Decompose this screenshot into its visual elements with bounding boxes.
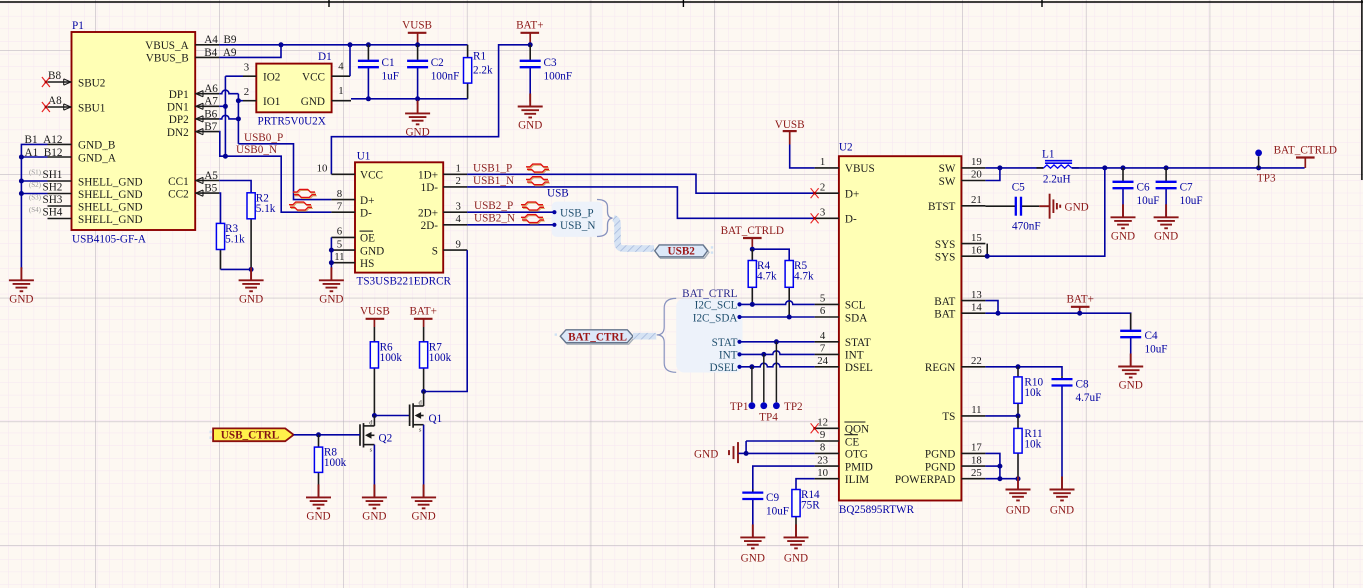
svg-text:DN2: DN2 <box>167 127 189 139</box>
svg-text:ILIM: ILIM <box>845 474 869 486</box>
capacitor C3 <box>520 45 572 102</box>
svg-text:6: 6 <box>337 226 343 238</box>
junction BAT join <box>996 311 1001 316</box>
pin SH3 (SHELL_GND) of P1 <box>48 201 143 213</box>
svg-text:22: 22 <box>971 355 982 367</box>
svg-text:B5: B5 <box>204 183 217 195</box>
svg-text:GND_A: GND_A <box>78 152 116 164</box>
pin 21 (BTST) of U2 <box>928 194 985 213</box>
svg-text:BAT: BAT <box>934 309 955 321</box>
ground GND under C6 <box>1122 204 1124 217</box>
pin A5 (CC1) of P1 <box>168 170 219 188</box>
svg-text:BAT_CTRL: BAT_CTRL <box>682 288 737 300</box>
pin 7 (INT) of U2 <box>815 343 864 362</box>
svg-text:8: 8 <box>820 442 825 454</box>
pin B8 (SBU2) of P1 <box>48 77 106 89</box>
svg-text:SYS: SYS <box>935 252 956 264</box>
pin label SH1 <box>29 168 62 180</box>
svg-text:10uF: 10uF <box>766 506 789 518</box>
svg-text:GND: GND <box>9 293 33 305</box>
svg-text:100k: 100k <box>324 457 347 469</box>
svg-text:TS3USB221EDRCR: TS3USB221EDRCR <box>357 276 452 288</box>
wire BAT+ to U1 VCC <box>331 45 530 175</box>
svg-text:10k: 10k <box>1024 387 1041 399</box>
svg-text:GND: GND <box>301 96 325 108</box>
wire P1 ground rail <box>21 144 47 269</box>
svg-text:2.2k: 2.2k <box>473 65 493 77</box>
no-ERC X on U2 D- <box>811 213 819 223</box>
svg-text:SCL: SCL <box>845 300 866 312</box>
pin 2 (1D-) of U1 <box>421 175 468 194</box>
svg-text:(S4): (S4) <box>29 206 42 214</box>
wire VUSB rail <box>281 44 468 46</box>
sheet border <box>0 0 1363 180</box>
wire DP2 to vertical <box>219 115 238 119</box>
wire D1 IO1 to vertical <box>238 100 243 102</box>
power port VUSB mid <box>360 306 390 327</box>
pin B6 (DP2) of P1 <box>169 108 219 126</box>
svg-text:USB2_N: USB2_N <box>474 213 515 225</box>
svg-text:3: 3 <box>820 207 825 219</box>
ground GND under rail <box>405 99 430 139</box>
svg-text:8: 8 <box>337 188 342 200</box>
pin SH1 (SHELL_GND) of P1 <box>48 176 143 188</box>
junction gnd rail at C1 <box>366 96 371 101</box>
svg-text:18: 18 <box>971 454 982 466</box>
junction at R8 top <box>316 432 321 437</box>
no-ERC X on U2 QON <box>811 423 819 433</box>
ground GND under C4 <box>1130 354 1132 367</box>
svg-text:VCC: VCC <box>360 170 383 182</box>
resistor R8 <box>314 435 346 498</box>
svg-text:14: 14 <box>971 301 982 313</box>
resistor R10 <box>1014 367 1044 416</box>
wire U1 S to Q1 drain <box>424 250 468 391</box>
ground GND under Q1 <box>423 484 425 497</box>
svg-text:SBU1: SBU1 <box>78 102 105 114</box>
pin 13 (BAT) of U2 <box>934 289 985 308</box>
svg-text:GND: GND <box>1154 230 1178 242</box>
wire I2C_SDA to U2 SDA <box>740 316 815 318</box>
ground GND under C7 <box>1165 204 1167 217</box>
svg-text:4: 4 <box>338 61 344 73</box>
svg-text:100nF: 100nF <box>544 71 573 83</box>
junction U1 HS pin <box>329 260 334 265</box>
junction DSEL TP1 <box>749 364 754 369</box>
wire U1 OE GND HS to ground <box>330 237 332 269</box>
pin 25 (POWERPAD) of U2 <box>895 467 986 486</box>
junction CE OTG gnd <box>744 451 749 456</box>
svg-text:21: 21 <box>971 194 982 206</box>
junction PGND25 <box>997 476 1002 481</box>
svg-text:PGND: PGND <box>925 449 955 461</box>
junction USB0_P at DP2 <box>236 116 241 121</box>
harness connector USB2 <box>655 245 714 258</box>
svg-text:B6: B6 <box>204 108 217 120</box>
svg-text:USB1_P: USB1_P <box>473 163 512 175</box>
svg-text:L1: L1 <box>1042 148 1054 160</box>
svg-text:3: 3 <box>455 200 460 212</box>
junction R6 Q2 drain gate node <box>372 413 377 418</box>
svg-text:TS: TS <box>942 411 955 423</box>
pin 10 (VCC) of U1 <box>317 163 383 182</box>
junction STAT TP2 <box>774 339 779 344</box>
svg-text:GND: GND <box>411 510 435 522</box>
wire CC1 to R2 <box>219 181 251 193</box>
test point TP4 <box>759 354 778 423</box>
wire net USB0_N to U1 D- <box>225 156 331 212</box>
mux U1 TS3USB221EDRCR body <box>355 151 452 288</box>
junction BAT+ right <box>1077 311 1082 316</box>
port USB_CTRL <box>210 428 294 441</box>
power port BAT+ right <box>1066 294 1093 314</box>
wire INT to U2 <box>740 351 815 355</box>
wire SYS15 to SYS16 <box>986 244 988 257</box>
svg-text:TP2: TP2 <box>784 401 803 413</box>
svg-text:SH1: SH1 <box>43 169 63 181</box>
wire net USB0_N vertical <box>225 76 243 156</box>
pin 22 (REGN) of U2 <box>925 355 985 374</box>
no-ERC X on U2 D+ <box>811 188 819 198</box>
svg-text:C4: C4 <box>1145 330 1158 342</box>
wire I2C_SCL to U2 SCL <box>740 301 815 305</box>
svg-text:2: 2 <box>244 86 249 98</box>
resistor R4 <box>748 249 777 304</box>
svg-text:GND: GND <box>1111 230 1135 242</box>
harness entry I2C_SDA <box>693 312 742 324</box>
svg-text:4: 4 <box>455 213 461 225</box>
charger U2 BQ25895RTWR body <box>839 142 962 517</box>
svg-text:SBU2: SBU2 <box>78 77 105 89</box>
junction VUSB rail at D1 VCC <box>348 42 353 47</box>
harness brace USB <box>597 200 613 237</box>
svg-text:SHELL_GND: SHELL_GND <box>78 214 143 226</box>
svg-text:VCC: VCC <box>302 72 325 84</box>
pin 3 (IO2) of D1 <box>243 62 280 84</box>
svg-text:A7: A7 <box>204 96 218 108</box>
wire VUSB to U2 VBUS <box>790 145 815 168</box>
pin 12 (QON) of U2 <box>815 417 870 436</box>
svg-text:QON: QON <box>845 424 869 436</box>
junction USB0_N bottom <box>223 154 228 159</box>
svg-text:2D-: 2D- <box>421 220 439 232</box>
svg-text:4.7k: 4.7k <box>794 271 814 283</box>
svg-text:DSEL: DSEL <box>845 362 873 374</box>
wire net USB0_P vertical <box>219 90 238 144</box>
power port BAT+ top <box>516 20 543 45</box>
wire REGN to C8 <box>985 367 1062 376</box>
pin 1 (GND) of D1 <box>301 85 351 108</box>
svg-text:GND: GND <box>319 293 343 305</box>
pin 20 (SW) of U2 <box>939 169 986 188</box>
svg-text:GND: GND <box>1065 201 1089 213</box>
pin 2 (D+) of U2 <box>815 181 860 200</box>
junction R11 gnd <box>1016 476 1021 481</box>
svg-text:U1: U1 <box>357 151 371 163</box>
diff pair mark on U1 D+ <box>294 191 316 194</box>
svg-text:GND: GND <box>1006 505 1030 517</box>
svg-text:INT: INT <box>719 350 738 362</box>
svg-text:D+: D+ <box>360 195 374 207</box>
junction dots on P1 ground rail <box>19 155 24 197</box>
wire ILIM to R14 <box>796 479 815 490</box>
ground GND under U1 <box>319 267 344 305</box>
wire D1 VCC up to rail <box>349 45 351 76</box>
pin A8 (SBU1) of P1 <box>48 102 106 114</box>
svg-text:PMID: PMID <box>845 461 873 473</box>
svg-text:SH2: SH2 <box>43 181 63 193</box>
svg-text:SH4: SH4 <box>43 206 63 218</box>
svg-text:IO2: IO2 <box>263 72 280 84</box>
svg-text:GND: GND <box>306 510 330 522</box>
svg-text:1uF: 1uF <box>382 71 399 83</box>
pin 23 (PMID) of U2 <box>815 454 873 473</box>
diode array D1 PRTR5V0U2X body <box>256 51 331 128</box>
svg-text:1: 1 <box>338 85 343 97</box>
junction rail C7 <box>1164 165 1169 170</box>
pin 5 (SCL) of U2 <box>815 293 866 312</box>
svg-text:VBUS_B: VBUS_B <box>146 53 189 65</box>
svg-text:SHELL_GND: SHELL_GND <box>78 176 143 188</box>
svg-text:10: 10 <box>317 163 328 175</box>
svg-text:C6: C6 <box>1137 182 1150 194</box>
wire USB_N stub <box>467 224 554 226</box>
pin 4 (VCC) of D1 <box>302 61 350 84</box>
junction at B4_A9 join <box>279 42 284 47</box>
power port VUSB at U2 <box>775 119 805 145</box>
resistor R7 <box>420 327 452 392</box>
harness connector BAT_CTRL <box>555 330 635 344</box>
resistor R14 <box>792 489 820 537</box>
pin 6 (OE) of U1 <box>331 226 375 245</box>
pin 9 (CE) of U2 <box>815 429 860 448</box>
svg-text:USB0_N: USB0_N <box>236 144 277 156</box>
diff pair mark on U1 D- <box>290 203 312 206</box>
svg-text:20: 20 <box>971 169 982 181</box>
svg-text:4: 4 <box>820 330 826 342</box>
ground GND under C3 <box>518 94 543 132</box>
svg-text:100k: 100k <box>380 352 403 364</box>
wire PMID to C9 <box>753 466 815 489</box>
wire BAT14 to C4 <box>985 313 1130 330</box>
svg-text:STAT: STAT <box>712 337 738 349</box>
pin 14 (BAT) of U2 <box>934 301 985 320</box>
pin A7 (DN1) of P1 <box>167 96 219 114</box>
test point TP1 <box>730 367 755 413</box>
junction SDA R5 <box>787 315 792 320</box>
capacitor C6 <box>1113 168 1160 217</box>
capacitor C1 <box>358 45 399 99</box>
svg-text:(S2): (S2) <box>29 181 42 189</box>
junction INT TP4 <box>761 352 766 357</box>
wire VBUS_A to VUSB rail <box>219 44 281 46</box>
junction VUSB rail at C1 <box>366 42 371 47</box>
diff pair mark USB2_N <box>522 216 544 219</box>
svg-text:1: 1 <box>820 156 825 168</box>
resistor R5 <box>785 260 814 317</box>
junction SCL R4 <box>750 302 755 307</box>
svg-text:C9: C9 <box>766 492 779 504</box>
svg-text:VUSB: VUSB <box>775 119 805 131</box>
svg-text:A6: A6 <box>204 83 218 95</box>
pin B7 (DN2) of P1 <box>167 121 219 139</box>
ground GND under R8 <box>318 484 320 497</box>
wire DN1 to vertical <box>219 105 225 107</box>
capacitor C7 <box>1156 168 1203 217</box>
junction PGND18 <box>997 464 1002 469</box>
pin 2 (IO1) of D1 <box>243 86 280 108</box>
svg-text:VUSB: VUSB <box>402 20 432 32</box>
harness band to USB2 <box>614 218 655 249</box>
svg-text:CE: CE <box>845 436 859 448</box>
svg-text:C3: C3 <box>544 57 557 69</box>
wire PGND down <box>985 453 1018 478</box>
svg-text:10: 10 <box>817 467 828 479</box>
svg-text:C7: C7 <box>1180 182 1193 194</box>
svg-text:C2: C2 <box>431 57 444 69</box>
ground GND under Q2 <box>373 484 375 497</box>
wire BAT13 down <box>985 301 998 314</box>
svg-text:11: 11 <box>971 404 981 416</box>
harness entry I2C_SCL <box>695 300 742 312</box>
svg-text:16: 16 <box>971 244 982 256</box>
svg-text:USB_N: USB_N <box>560 220 595 232</box>
wire STAT to U2 <box>740 341 815 343</box>
harness entry USB_P <box>552 208 593 220</box>
svg-text:DP2: DP2 <box>169 114 189 126</box>
svg-text:U2: U2 <box>839 142 853 154</box>
svg-text:7: 7 <box>337 200 343 212</box>
pin 1 (1D+) of U1 <box>418 163 467 182</box>
svg-text:A5: A5 <box>204 170 218 182</box>
svg-text:C1: C1 <box>382 57 395 69</box>
svg-text:PRTR5V0U2X: PRTR5V0U2X <box>258 116 326 128</box>
test point TP3 <box>1255 150 1276 185</box>
pin 11 (HS) of U1 <box>331 251 374 270</box>
svg-text:I2C_SCL: I2C_SCL <box>695 300 738 312</box>
svg-text:BTST: BTST <box>928 201 956 213</box>
svg-text:19: 19 <box>971 156 982 168</box>
pin label SH4 <box>29 206 63 218</box>
pin 4 (STAT) of U2 <box>815 330 871 349</box>
power port BAT_CTRLD left <box>721 225 784 249</box>
svg-text:9: 9 <box>455 238 460 250</box>
svg-text:B8: B8 <box>48 70 61 82</box>
svg-text:75R: 75R <box>801 500 820 512</box>
wire CC2 to R3 <box>219 193 220 223</box>
svg-text:GND: GND <box>694 448 718 460</box>
svg-text:D-: D- <box>845 214 857 226</box>
junction rail SYS <box>1102 165 1107 170</box>
pin 4 (2D-) of U1 <box>421 213 468 232</box>
pin 11 (TS) of U2 <box>942 404 985 423</box>
svg-text:D1: D1 <box>318 51 332 63</box>
pin 3 (2D+) of U1 <box>418 200 467 219</box>
svg-text:USB2_P: USB2_P <box>474 200 513 212</box>
pin A4_B9 (VBUS_A) of P1 <box>145 34 237 52</box>
svg-text:SDA: SDA <box>845 312 867 324</box>
pin 8 (OTG) of U2 <box>815 442 868 461</box>
svg-text:GND: GND <box>518 120 542 132</box>
capacitor C5 BTST <box>985 182 1049 233</box>
wire SW rail to L1 <box>985 167 1043 169</box>
svg-text:5.1k: 5.1k <box>225 233 245 245</box>
test point TP2 <box>773 342 803 413</box>
svg-text:D+: D+ <box>845 189 859 201</box>
resistor R11 <box>1014 416 1043 479</box>
svg-text:USB0_P: USB0_P <box>244 132 283 144</box>
svg-text:DP1: DP1 <box>169 89 189 101</box>
pin B4_A9 (VBUS_B) of P1 <box>146 47 237 65</box>
svg-text:5: 5 <box>337 238 342 250</box>
svg-text:GND: GND <box>1119 380 1143 392</box>
svg-text:SHELL_GND: SHELL_GND <box>78 201 143 213</box>
svg-text:4.7uF: 4.7uF <box>1076 392 1102 404</box>
svg-text:USB_CTRL: USB_CTRL <box>221 429 279 441</box>
capacitor C8 <box>1052 376 1102 489</box>
svg-text:BAT+: BAT+ <box>516 20 543 32</box>
svg-text:R1: R1 <box>473 51 486 63</box>
svg-text:9: 9 <box>820 429 825 441</box>
svg-text:10uF: 10uF <box>1137 195 1160 207</box>
pin B5 (CC2) of P1 <box>168 183 219 201</box>
junction BAT_CTRLD node <box>750 247 755 252</box>
pin 17 (PGND) of U2 <box>925 442 985 461</box>
junction SW <box>997 165 1002 170</box>
svg-text:USB_P: USB_P <box>560 208 594 220</box>
wire USB_P stub <box>467 211 554 213</box>
svg-text:GND: GND <box>1050 505 1074 517</box>
pin 1 (VBUS) of U2 <box>815 156 875 175</box>
svg-text:25: 25 <box>971 467 982 479</box>
svg-text:10uF: 10uF <box>1180 195 1203 207</box>
svg-text:4.7k: 4.7k <box>757 271 777 283</box>
junction BAT+ C3 <box>528 42 533 47</box>
pin A6 (DP1) of P1 <box>169 83 219 101</box>
pin 16 (SYS) of U2 <box>935 244 986 263</box>
pin label SH3 <box>29 193 63 205</box>
power port VUSB top <box>402 20 432 45</box>
diff pair mark USB1_P <box>527 165 549 168</box>
wire ground rail <box>351 98 468 100</box>
junction USB0_P at IO1 <box>236 98 241 103</box>
svg-text:GND: GND <box>784 552 808 564</box>
svg-text:100nF: 100nF <box>431 71 460 83</box>
resistor R1 <box>464 45 493 99</box>
svg-text:CC2: CC2 <box>168 188 189 200</box>
capacitor C9 <box>742 490 789 538</box>
svg-text:SH3: SH3 <box>43 194 63 206</box>
harness brace BAT_CTRL <box>657 298 677 372</box>
svg-text:VBUS: VBUS <box>845 163 875 175</box>
wire USB1_N to U2 D- <box>467 187 814 218</box>
pin 24 (DSEL) of U2 <box>815 355 873 374</box>
junction SYS16 <box>985 254 990 259</box>
svg-text:USB: USB <box>547 188 569 200</box>
pin 3 (D-) of U2 <box>815 207 857 226</box>
svg-text:IO1: IO1 <box>263 96 280 108</box>
svg-text:B7: B7 <box>204 121 217 133</box>
resistor R3 <box>216 223 245 270</box>
svg-text:(S1): (S1) <box>29 168 42 176</box>
svg-text:REGN: REGN <box>925 362 955 374</box>
ground GND under P1 <box>9 267 34 305</box>
wire L1 to BAT_CTRLD <box>1072 167 1305 169</box>
wire net USB0_P to U1 D+ <box>238 144 331 200</box>
wire SYS to SW rail <box>987 168 1105 256</box>
svg-text:TP3: TP3 <box>1257 172 1276 184</box>
harness entry STAT <box>712 337 742 349</box>
